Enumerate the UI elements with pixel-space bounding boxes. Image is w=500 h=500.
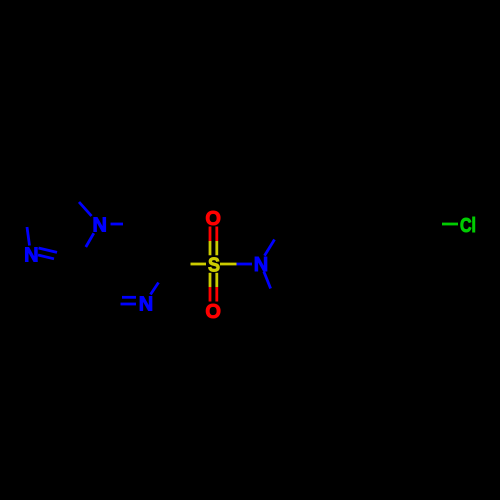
svg-text:N: N: [254, 254, 268, 276]
wire bond S=O1 right yellow: [215, 241, 218, 255]
wire bond N7=C8 inner half: [122, 296, 136, 299]
wire bond S=O2 right yellow: [215, 273, 218, 287]
wire bond S=O1 left red: [209, 227, 212, 242]
wire bond N1-C2 half: [27, 227, 30, 246]
wire bond S=O1 left yellow: [209, 241, 212, 255]
svg-text:O: O: [205, 301, 221, 323]
wire bond Ns-CH3 half: [264, 272, 271, 289]
wire bond N7-C6 half: [151, 283, 159, 295]
svg-text:N: N: [92, 215, 106, 237]
svg-text:O: O: [205, 208, 221, 230]
wire bond S=O1 right red: [215, 227, 218, 242]
wire bond S=O2 right red: [215, 287, 218, 302]
svg-text:N: N: [139, 294, 153, 316]
wire bond C6-S half: [191, 263, 207, 266]
wire bond S=O2 left yellow: [209, 273, 212, 287]
wire bond S-N yellow half: [220, 263, 237, 266]
svg-text:Cl: Cl: [460, 215, 476, 237]
wire bond N4-C5 half: [111, 223, 124, 226]
wire bond S=O2 left red: [209, 287, 212, 302]
wire bond C4'-Cl half: [442, 223, 458, 226]
wire bond N1=C8a main half: [38, 255, 54, 259]
wire bond N1=C8a inner half: [39, 248, 58, 252]
wire bond N7=C8 main half: [121, 303, 137, 306]
wire bond S-N blue half: [237, 263, 253, 266]
wire bond N4-C8a half: [86, 233, 94, 247]
wire bond Ns-CH2 half: [265, 240, 275, 256]
svg-text:S: S: [208, 254, 220, 276]
svg-text:N: N: [24, 245, 38, 267]
wire bond N4-C3 half: [79, 202, 92, 216]
